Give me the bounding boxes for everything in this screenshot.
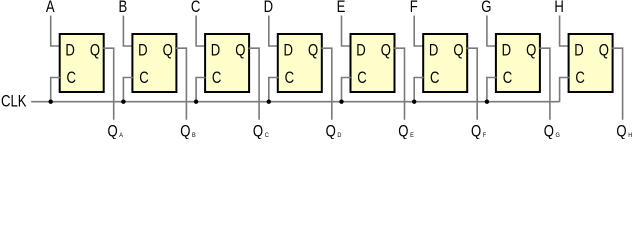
svg-text:Q: Q (308, 42, 318, 60)
svg-text:D: D (284, 42, 294, 60)
wire CLK bus (31, 101, 559, 103)
svg-text:B: B (192, 132, 196, 139)
wire CLK branch to C input of FF2 (123, 78, 132, 102)
svg-text:Q: Q (381, 42, 391, 60)
svg-text:D: D (65, 42, 75, 60)
wire Q output of FF6 down to QF (467, 48, 478, 120)
svg-text:C: C (191, 0, 201, 17)
junction dot CLK bus / FF2 clock branch (121, 100, 125, 104)
junction dot CLK bus / FF4 clock branch (267, 100, 271, 104)
svg-text:H: H (628, 132, 632, 139)
svg-text:G: G (556, 132, 561, 139)
svg-text:D: D (337, 132, 342, 139)
wire Q output of FF2 down to QB (176, 48, 187, 120)
svg-text:Q: Q (163, 42, 173, 60)
svg-text:Q: Q (616, 123, 626, 139)
D flip-flop FF3 body (205, 34, 249, 92)
svg-text:H: H (554, 0, 563, 17)
svg-text:Q: Q (526, 42, 536, 60)
svg-text:Q: Q (180, 123, 190, 139)
junction dot CLK bus / FF7 clock branch (485, 100, 489, 104)
svg-text:C: C (265, 132, 270, 139)
svg-text:C: C (575, 70, 585, 88)
wire G to D input of FF7 (487, 16, 497, 47)
D flip-flop FF5 body (351, 34, 395, 92)
wire CLK branch to C input of FF6 (414, 78, 424, 102)
wire F to D input of FF6 (414, 16, 424, 47)
D flip-flop FF2 body (132, 34, 176, 92)
svg-text:G: G (481, 0, 491, 17)
wire H to D input of FF8 (560, 16, 570, 47)
junction dot CLK bus / FF6 clock branch (412, 100, 416, 104)
svg-text:E: E (337, 0, 346, 17)
svg-text:C: C (285, 70, 295, 88)
wire CLK branch to C input of FF7 (487, 78, 497, 102)
svg-text:Q: Q (235, 42, 245, 60)
wire CLK branch to C input of FF8 (560, 78, 570, 102)
junction dot CLK bus / FF3 clock branch (194, 100, 198, 104)
wire Q output of FF3 down to QC (249, 48, 260, 120)
D flip-flop FF6 body (423, 34, 467, 92)
svg-text:Q: Q (544, 123, 554, 139)
D flip-flop FF1 body (60, 34, 104, 92)
junction dot CLK bus / FF5 clock branch (339, 100, 343, 104)
svg-text:C: C (212, 70, 222, 88)
svg-text:C: C (503, 70, 513, 88)
svg-text:Q: Q (326, 123, 336, 139)
svg-text:D: D (429, 42, 439, 60)
svg-text:C: C (357, 70, 367, 88)
wire CLK branch to C input of FF4 (269, 78, 279, 102)
svg-text:E: E (410, 132, 414, 139)
svg-text:D: D (211, 42, 221, 60)
wire D to D input of FF4 (269, 16, 279, 47)
wire Q output of FF4 down to QD (321, 48, 332, 120)
svg-text:D: D (574, 42, 584, 60)
wire B to D input of FF2 (123, 16, 132, 47)
D flip-flop FF7 body (496, 34, 540, 92)
svg-text:D: D (356, 42, 366, 60)
wire E to D input of FF5 (342, 16, 352, 47)
svg-text:Q: Q (471, 123, 481, 139)
wire A to D input of FF1 (51, 16, 61, 47)
svg-text:A: A (119, 132, 124, 139)
wire C to D input of FF3 (196, 16, 206, 47)
D flip-flop FF8 body (569, 34, 613, 92)
svg-text:Q: Q (108, 123, 118, 139)
svg-text:B: B (119, 0, 128, 17)
wire CLK branch to C input of FF3 (196, 78, 206, 102)
svg-text:C: C (139, 70, 149, 88)
svg-text:Q: Q (599, 42, 609, 60)
svg-text:Q: Q (398, 123, 408, 139)
svg-text:F: F (483, 132, 487, 139)
wire CLK branch to C input of FF1 (51, 78, 61, 102)
wire CLK branch to C input of FF5 (342, 78, 352, 102)
svg-text:A: A (46, 0, 55, 17)
svg-text:C: C (430, 70, 440, 88)
svg-text:CLK: CLK (1, 93, 27, 111)
svg-text:Q: Q (253, 123, 263, 139)
svg-text:D: D (138, 42, 148, 60)
svg-text:Q: Q (90, 42, 100, 60)
junction dot CLK bus / FF1 clock branch (49, 100, 53, 104)
svg-text:Q: Q (453, 42, 463, 60)
D flip-flop FF4 body (278, 34, 322, 92)
wire Q output of FF5 down to QE (394, 48, 405, 120)
svg-text:D: D (502, 42, 512, 60)
svg-text:D: D (264, 0, 274, 17)
wire Q output of FF7 down to QG (539, 48, 550, 120)
wire Q output of FF1 down to QA (103, 48, 114, 120)
svg-text:F: F (410, 0, 418, 17)
svg-text:C: C (67, 70, 77, 88)
wire Q output of FF8 down to QH (612, 48, 623, 120)
